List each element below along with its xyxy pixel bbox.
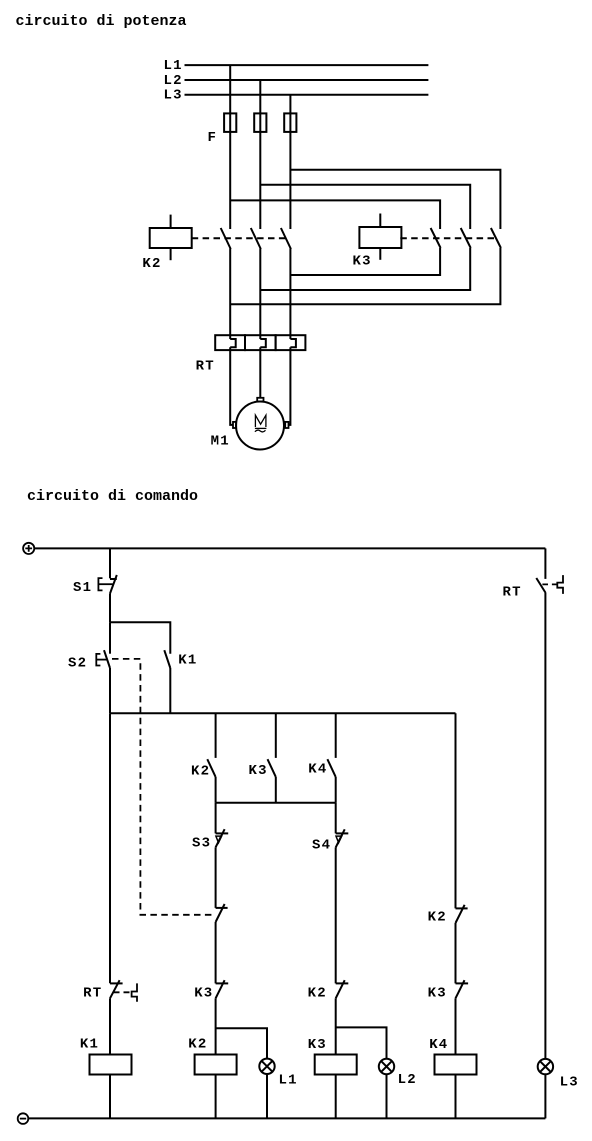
contactor coil K2 (195, 1055, 237, 1075)
wire L3 bus (185, 94, 429, 96)
contact K3 aux NO blade (268, 759, 276, 777)
wire linked contact down (215, 922, 217, 983)
wire K3 aux top (275, 713, 277, 758)
wire lamp L1 branch (216, 1028, 267, 1058)
wire S3 top (215, 803, 217, 834)
thermal contact RT seat (110, 982, 123, 984)
contactor coil K3 (315, 1055, 357, 1075)
contact K2 NC blade (col 3) (336, 980, 345, 998)
wire bottom rail (28, 1117, 545, 1119)
contact K1 blade (164, 650, 170, 668)
svg-text:K3: K3 (249, 763, 268, 779)
wire feed phase1 to K3 contact 1 (230, 200, 440, 229)
wire K2 aux top (215, 713, 217, 758)
contact K3 NC seat (col 2) (216, 982, 229, 984)
motor M1 circle (236, 402, 284, 450)
svg-text:L3: L3 (560, 1075, 579, 1091)
RT right dashed link (542, 583, 557, 585)
S2 linked NC contact blade (216, 904, 225, 922)
K2 main contact pole 1 blade (221, 228, 231, 249)
svg-text:K3: K3 (353, 254, 372, 270)
RT dashed link (114, 991, 131, 993)
wire K3 NC to K4 coil (455, 998, 457, 1054)
wire right column from rail (544, 548, 546, 579)
K3 actuator dashed link (400, 237, 496, 239)
svg-text:RT: RT (83, 986, 102, 1002)
wire K3 aux bottom (275, 777, 277, 803)
wire lamp L2 branch (336, 1027, 387, 1058)
svg-text:circuito di comando: circuito di comando (27, 488, 198, 505)
contact K3 NC seat (col 4) (456, 982, 469, 984)
contact K3 NC blade (col 2) (216, 980, 225, 998)
wire S4 top (335, 803, 337, 834)
wire K2 aux bottom (215, 777, 217, 803)
wire S3 to linked contact (215, 847, 217, 908)
motor right terminal (285, 422, 288, 428)
lamp L3 (538, 1059, 553, 1074)
pushbutton S1 bracket (98, 578, 102, 590)
wire RT pole1 to motor left terminal (230, 347, 233, 425)
wire K2 coil stub bottom (170, 248, 172, 260)
contact K4 aux NO blade (327, 759, 335, 777)
contactor coil K4 (435, 1055, 477, 1075)
wire K2 coil stub top (170, 215, 172, 228)
wire top rail (34, 547, 545, 549)
wire K1 down to bus (169, 668, 171, 713)
wire S4 down to K2 NC (335, 847, 337, 983)
contact K3 NC blade (col 4) (456, 980, 465, 998)
RT heater jog pole 1 (230, 339, 236, 347)
wire K4 coil down (455, 1075, 457, 1119)
wire S1 top (109, 548, 111, 578)
wire lamp L2 down (386, 1074, 388, 1118)
svg-text:S3: S3 (192, 836, 211, 852)
switch S4 wedge (336, 836, 342, 843)
wire RT to K1 coil (109, 998, 111, 1054)
wire S1 to junction (109, 594, 111, 623)
thermal contact RT right blade (536, 578, 545, 593)
RT heater jog pole 2 (260, 339, 266, 347)
switch S4 blade (336, 829, 345, 847)
svg-text:K4: K4 (308, 762, 327, 778)
wire K3 pole1 return to phase wire 3 (290, 248, 440, 275)
motor M glyph (255, 415, 266, 427)
wire K3 pole3 return to phase wire 1 (230, 248, 500, 304)
wire K2 NC to K3 coil (335, 998, 337, 1054)
RT trip symbol (132, 983, 137, 1001)
switch S3 seat (216, 832, 229, 834)
svg-text:K1: K1 (178, 653, 197, 669)
svg-text:K1: K1 (80, 1037, 99, 1053)
wire K3 pole2 return to phase wire 2 (260, 248, 470, 290)
wire branch to K1 (110, 622, 170, 654)
lamp L1 (259, 1059, 274, 1074)
svg-text:K2: K2 (142, 256, 161, 272)
wire junction bus 2 (216, 802, 336, 804)
svg-text:L3: L3 (164, 88, 183, 104)
svg-text:K4: K4 (429, 1037, 448, 1053)
wire phase3 drop from L3 (289, 95, 291, 229)
motor left terminal (233, 422, 236, 428)
svg-text:K3: K3 (428, 986, 447, 1002)
pushbutton S2 rod (96, 659, 107, 661)
K3 main contact pole 3 blade (491, 228, 501, 248)
svg-text:K3: K3 (308, 1037, 327, 1053)
fuse F pole 3 (284, 113, 296, 131)
wire phase3 K2 contact to RT (289, 249, 291, 340)
thermal relay RT pole 3 box (276, 335, 306, 350)
wire K4 aux bottom (335, 777, 337, 803)
wire K3 coil stub bottom (379, 247, 381, 260)
RT right trip symbol (557, 575, 563, 594)
wire lamp L1 down (266, 1074, 268, 1118)
wire phase2 drop from L2 (259, 80, 261, 229)
wire lamp L3 down (544, 1074, 546, 1118)
lamp L2 (379, 1059, 394, 1074)
svg-text:K2: K2 (308, 986, 327, 1002)
wire phase1 K2 contact to RT (229, 249, 231, 340)
wire K3 NC to K2 coil (215, 998, 217, 1054)
plus supply terminal (23, 543, 34, 554)
svg-text:K3: K3 (194, 986, 213, 1002)
wire L2 bus (185, 79, 429, 81)
switch S4 seat (336, 832, 349, 834)
wire left column down (109, 713, 111, 983)
svg-text:S4: S4 (312, 838, 331, 854)
fuse F pole 1 (224, 113, 236, 131)
pushbutton S1 rod (98, 583, 112, 585)
contactor K3 coil (359, 227, 401, 248)
K2 main contact pole 2 blade (251, 228, 261, 249)
svg-text:RT: RT (196, 359, 215, 375)
motor tilde (255, 430, 266, 432)
switch S3 wedge (216, 836, 222, 843)
motor top terminal (257, 398, 263, 402)
K2 main contact pole 3 blade (281, 228, 291, 249)
svg-text:K2: K2 (188, 1037, 207, 1053)
wire K2 aux right top (455, 713, 457, 908)
wire K3 coil down (335, 1075, 337, 1119)
svg-text:K2: K2 (191, 764, 210, 780)
svg-text:S1: S1 (73, 580, 92, 596)
K3 main contact pole 2 blade (461, 228, 471, 248)
fuse F pole 2 (254, 113, 266, 131)
svg-text:K2: K2 (428, 910, 447, 926)
contactor coil K1 (90, 1055, 132, 1075)
contact K2 aux NC blade (456, 905, 465, 923)
wire RT pole2 to motor top terminal (259, 347, 261, 398)
wire K2 aux right bottom (455, 923, 457, 983)
wire L1 bus (185, 64, 429, 66)
wire K1 coil down (109, 1075, 111, 1119)
pushbutton S1 seat (110, 578, 117, 580)
wire phase1 drop from L1 (229, 65, 231, 229)
svg-text:L2: L2 (398, 1072, 417, 1088)
thermal contact RT blade (110, 980, 120, 998)
wire K2 coil down (215, 1075, 217, 1119)
contact K2 NC seat (col 3) (336, 982, 349, 984)
svg-text:M1: M1 (211, 434, 230, 450)
K3 main contact pole 1 blade (431, 228, 441, 248)
thermal relay RT pole 1 box (215, 335, 245, 350)
pushbutton S2 bracket (96, 654, 100, 666)
contactor K2 coil (150, 228, 192, 248)
svg-text:L1: L1 (164, 58, 183, 74)
S2 linked NC contact seat (216, 907, 228, 909)
minus supply terminal (18, 1113, 29, 1124)
wire phase2 K2 contact to RT (259, 249, 261, 340)
pushbutton S1 blade (110, 575, 117, 594)
svg-text:F: F (208, 130, 218, 146)
contact K2 aux NC seat (456, 907, 468, 909)
motor M underline (255, 427, 267, 429)
switch S3 blade (216, 829, 225, 847)
wire control bus (110, 712, 456, 714)
svg-text:circuito di potenza: circuito di potenza (16, 13, 187, 30)
wire K3 coil stub top (379, 214, 381, 228)
RT heater jog pole 3 (290, 339, 296, 347)
wire right column down to L3 (544, 593, 546, 1059)
wire feed phase2 to K3 contact 2 (260, 185, 470, 229)
wire K4 aux top (335, 713, 337, 758)
wire feed phase3 to K3 contact 3 (290, 170, 500, 229)
wire junction to S2 (109, 622, 111, 654)
wire RT pole3 to motor right terminal (289, 347, 291, 425)
wire S2 down to bus (109, 668, 111, 713)
thermal relay RT pole 2 box (245, 335, 276, 350)
svg-text:S2: S2 (68, 656, 87, 672)
K2 actuator dashed link (192, 237, 288, 239)
svg-text:L1: L1 (279, 1073, 298, 1089)
svg-text:RT: RT (503, 585, 522, 601)
S2 mechanical dashed link (112, 659, 214, 915)
contact K2 aux NO blade (207, 759, 215, 777)
pushbutton S2 blade (104, 650, 110, 668)
